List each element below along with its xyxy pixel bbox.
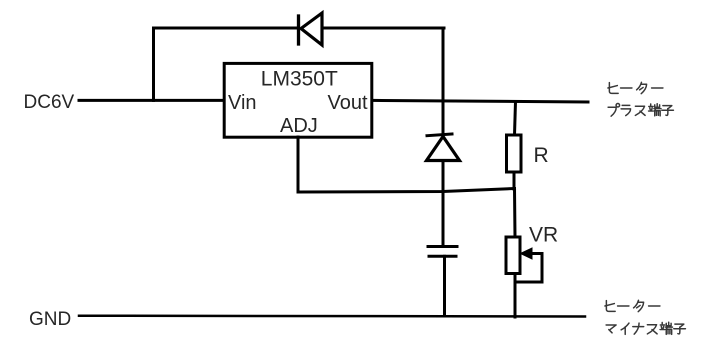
svg-text:Vout: Vout: [328, 92, 368, 114]
wire D2 to capacitor: [442, 161, 445, 247]
wire R lower: [513, 172, 516, 189]
wire capacitor to ground rail: [443, 256, 446, 316]
diode D2 triangle: [427, 137, 460, 161]
capacitor C bottom plate: [429, 255, 456, 258]
wire R branch upper: [515, 102, 516, 136]
text heater minus line1 (katakana hiitaa): [605, 301, 615, 312]
wire right vertical drop: [442, 28, 445, 135]
wire riser to top rail: [154, 28, 298, 100]
svg-text:Vin: Vin: [228, 92, 257, 114]
wire R to VR: [513, 189, 517, 238]
wire top rail right: [322, 27, 444, 30]
diode D1 triangle: [301, 13, 322, 45]
diode D2 cathode bar: [427, 134, 452, 136]
wire ground rail: [79, 314, 585, 317]
svg-text:ADJ: ADJ: [280, 115, 318, 137]
wire Vout to heater plus: [372, 100, 588, 102]
svg-text:VR: VR: [529, 224, 558, 247]
wire ADJ pin vertical: [297, 137, 300, 192]
svg-text:DC6V: DC6V: [24, 92, 75, 113]
op-amp/regulator box U1 LM350T: [224, 63, 372, 137]
capacitor C top plate: [428, 245, 457, 248]
potentiometer VR wiper arrow: [516, 254, 542, 283]
wire VR to ground rail: [514, 274, 517, 318]
text heater minus line2 (mainasu tanshi): [606, 325, 616, 333]
diode D1 cathode bar: [297, 16, 300, 44]
svg-text:LM350T: LM350T: [261, 68, 338, 91]
wire DC6V input: [79, 99, 224, 102]
svg-text:GND: GND: [29, 309, 71, 330]
potentiometer VR body: [506, 237, 520, 274]
text heater plus line1 (katakana hiitaa): [605, 82, 686, 334]
text heater plus line2 (purasu tanshi): [608, 104, 619, 117]
resistor R: [507, 135, 522, 172]
wire ADJ horizontal to R: [298, 189, 515, 193]
svg-text:R: R: [534, 144, 549, 167]
